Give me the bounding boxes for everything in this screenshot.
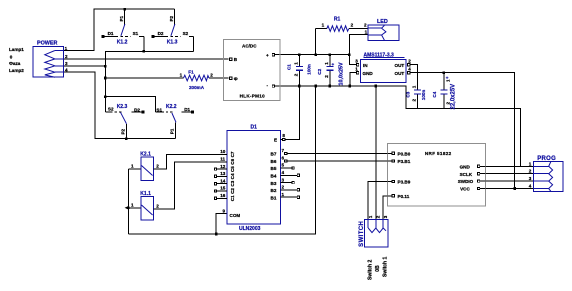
pin 15 C2 <box>217 190 227 192</box>
wire C2 leads <box>329 55 331 86</box>
wire GND minus rail <box>275 86 520 166</box>
wire LED pin1 down to +5V and AMS IN <box>349 35 368 65</box>
pin 8 E <box>281 138 286 140</box>
wire coil common vertical <box>127 169 129 234</box>
svg-text:P3.B9: P3.B9 <box>398 180 411 185</box>
svg-text:3: 3 <box>65 61 68 66</box>
wire C6 to K1.1 pin2 <box>153 162 227 209</box>
wire E pin net to rail <box>285 86 299 139</box>
svg-text:Switch 2: Switch 2 <box>368 259 374 280</box>
svg-text:+: + <box>332 62 335 67</box>
svg-text:C4: C4 <box>432 91 437 97</box>
pin 10 C7 <box>217 154 227 156</box>
svg-text:K2.1: K2.1 <box>140 152 151 158</box>
wire Faza rail with S-contact drops <box>105 51 193 111</box>
resistor R1 <box>322 17 354 32</box>
svg-text:B7: B7 <box>271 152 277 157</box>
svg-text:1: 1 <box>529 161 532 166</box>
wire K1.3 S2 drop <box>193 36 195 51</box>
IC D1 ULN2003 <box>214 124 299 232</box>
wire K1.3 pole <box>174 9 176 26</box>
svg-text:OUT: OUT <box>395 63 405 68</box>
svg-text:VCC: VCC <box>460 187 470 192</box>
pin 5 B5 <box>281 167 292 169</box>
svg-text:2: 2 <box>282 185 285 190</box>
svg-text:C4: C4 <box>230 173 235 179</box>
capacitor C3 <box>405 85 426 101</box>
svg-text:POWER: POWER <box>37 41 57 47</box>
svg-text:0В: 0В <box>375 265 381 272</box>
wire B7 to MCU P0.B0 <box>287 152 392 154</box>
wire B6 to MCU P3.B1 <box>287 160 392 162</box>
svg-text:ULN2003: ULN2003 <box>239 226 261 232</box>
wire long GND vertical and bottom rail <box>128 86 315 234</box>
svg-text:D2: D2 <box>158 31 164 36</box>
svg-text:P2: P2 <box>120 128 125 134</box>
relay contact K2.2 <box>155 104 194 134</box>
svg-text:D1: D1 <box>184 107 190 112</box>
svg-text:S2: S2 <box>183 31 189 36</box>
connector PROG <box>529 156 563 192</box>
wire MCU GND to PROG 1 <box>480 165 534 167</box>
svg-text:2: 2 <box>408 58 411 63</box>
svg-text:12: 12 <box>220 164 226 169</box>
svg-text:S1: S1 <box>156 107 162 112</box>
pin 1 B1 <box>281 196 297 198</box>
svg-text:+: + <box>446 76 449 81</box>
wire AMS GND to rail <box>350 73 356 86</box>
pin 6 B6 <box>285 160 287 162</box>
svg-text:S2: S2 <box>108 107 114 112</box>
wire POWER pin2 to AC/DC B <box>64 58 229 60</box>
wire K2.2 S1 branch <box>105 97 155 113</box>
svg-text:Switch 1: Switch 1 <box>383 256 389 277</box>
svg-text:C1: C1 <box>287 64 292 70</box>
svg-text:S1: S1 <box>133 31 139 36</box>
svg-text:2: 2 <box>156 204 159 209</box>
svg-text:Фaza: Фaza <box>9 61 21 66</box>
svg-text:K1.1: K1.1 <box>140 191 151 197</box>
svg-text:B6: B6 <box>271 159 277 164</box>
svg-text:2: 2 <box>351 22 354 27</box>
svg-text:100n: 100n <box>306 64 311 75</box>
wire SWITCH pin2 GND vertical <box>375 86 377 220</box>
connector LED <box>364 19 399 41</box>
svg-text:1: 1 <box>412 85 417 88</box>
svg-text:LED: LED <box>377 19 388 25</box>
connector SWITCH <box>359 215 388 247</box>
relay coil K2.1 <box>131 152 166 181</box>
svg-text:SWITCH: SWITCH <box>359 221 365 247</box>
svg-text:1: 1 <box>131 202 134 207</box>
svg-text:HLK-PM10: HLK-PM10 <box>240 93 266 98</box>
svg-text:14: 14 <box>220 178 226 183</box>
svg-text:6: 6 <box>282 155 285 160</box>
svg-text:COM: COM <box>230 213 241 218</box>
wire MCU P0.11 to SWITCH pin3 <box>383 196 392 220</box>
wire K2.1 pin1 <box>128 168 141 170</box>
pin 16 C1 <box>217 197 227 199</box>
svg-text:2: 2 <box>364 23 367 28</box>
svg-text:Ф: Ф <box>234 77 238 82</box>
svg-text:R1: R1 <box>334 17 341 23</box>
wire MCU P3.B9 to SWITCH pin1 <box>368 182 392 220</box>
svg-text:C3: C3 <box>230 180 235 186</box>
relay contact K1.2 <box>102 15 144 45</box>
wire F1 row Faza to AC/DC <box>105 77 228 79</box>
pin 11 C6 <box>217 161 227 163</box>
svg-text:1: 1 <box>368 215 373 218</box>
svg-text:11: 11 <box>220 157 225 162</box>
svg-text:2: 2 <box>446 102 451 105</box>
svg-text:2: 2 <box>324 75 329 78</box>
module U3 NRF 51822 <box>388 144 486 206</box>
wire top rail Lamp1 net <box>64 9 175 51</box>
wire C1 leads <box>298 55 300 86</box>
svg-text:1: 1 <box>322 22 325 27</box>
svg-text:3: 3 <box>282 177 285 182</box>
svg-text:C2: C2 <box>230 188 235 194</box>
relay contact K1.3 <box>152 15 194 45</box>
wire K1.2 pole <box>124 9 126 26</box>
svg-text:Lamp2: Lamp2 <box>9 68 24 73</box>
svg-text:C7: C7 <box>230 151 235 157</box>
svg-text:7: 7 <box>282 148 285 153</box>
svg-text:C2: C2 <box>317 68 322 74</box>
svg-text:1: 1 <box>365 29 368 34</box>
svg-text:C1: C1 <box>230 195 235 201</box>
svg-text:P3.B1: P3.B1 <box>398 159 411 164</box>
svg-text:10,0x25V: 10,0x25V <box>339 62 345 85</box>
wire AMS OUT2 to C3 <box>409 65 418 109</box>
svg-text:B3: B3 <box>271 181 277 186</box>
svg-text:8: 8 <box>282 133 285 138</box>
wire C4 leads <box>443 73 445 109</box>
svg-text:PROG: PROG <box>537 156 556 162</box>
svg-text:5: 5 <box>282 163 285 168</box>
svg-text:F1: F1 <box>188 70 194 75</box>
svg-text:+: + <box>266 53 269 58</box>
wire K2.2 pole <box>175 122 177 138</box>
svg-text:2: 2 <box>156 163 159 168</box>
svg-text:3: 3 <box>529 176 532 181</box>
svg-text:P0.11: P0.11 <box>398 194 410 199</box>
svg-text:16: 16 <box>220 193 226 198</box>
svg-text:4: 4 <box>529 184 532 189</box>
svg-text:4: 4 <box>282 170 285 175</box>
pin 13 C4 <box>217 175 227 177</box>
svg-text:GND: GND <box>363 71 374 76</box>
pin 7 B7 <box>285 152 287 154</box>
svg-text:4: 4 <box>408 66 411 71</box>
node arrow at K1.1 pin1 junction <box>125 206 129 210</box>
wire K1.1 pin1 <box>128 207 141 209</box>
svg-text:K2.2: K2.2 <box>166 104 177 110</box>
svg-text:K1.3: K1.3 <box>167 39 178 45</box>
svg-text:2: 2 <box>293 73 298 76</box>
pin 4 B4 <box>281 174 297 176</box>
svg-text:15: 15 <box>220 186 226 191</box>
svg-text:D1: D1 <box>108 31 114 36</box>
svg-text:22,0x25V: 22,0x25V <box>451 84 457 110</box>
svg-text:C5: C5 <box>230 166 235 172</box>
svg-text:9: 9 <box>223 208 226 213</box>
svg-text:10: 10 <box>220 149 226 154</box>
svg-text:2: 2 <box>210 73 213 78</box>
svg-text:1: 1 <box>65 46 68 51</box>
regulator U2 AMS1117-3.3 <box>355 53 411 83</box>
svg-text:1: 1 <box>282 192 285 197</box>
wire +5V rail <box>275 54 349 56</box>
svg-text:1: 1 <box>131 163 134 168</box>
pin 14 C3 <box>217 183 227 185</box>
relay coil K1.1 <box>131 191 175 220</box>
svg-text:4: 4 <box>65 67 68 72</box>
svg-text:200mA: 200mA <box>189 85 205 90</box>
wire C7 to K2.1 pin2 <box>153 155 227 169</box>
pin 3 B3 <box>281 182 292 184</box>
svg-text:2: 2 <box>412 99 417 102</box>
wire MCU SWDIO to PROG 3 <box>480 180 534 182</box>
svg-text:P2: P2 <box>169 15 174 21</box>
svg-text:3: 3 <box>383 215 388 218</box>
module U1 AC/DC HLK-PM10 <box>223 39 280 100</box>
svg-text:3: 3 <box>355 58 358 63</box>
svg-text:B2: B2 <box>271 188 277 193</box>
fuse F1 <box>180 70 214 91</box>
svg-text:K1.2: K1.2 <box>117 39 128 45</box>
connector POWER <box>33 41 68 78</box>
relay contact K2.3 <box>105 104 144 135</box>
svg-text:K2.3: K2.3 <box>117 104 128 110</box>
svg-text:2: 2 <box>375 215 380 218</box>
svg-text:GND: GND <box>460 164 471 169</box>
svg-text:E: E <box>274 138 277 143</box>
svg-text:B5: B5 <box>271 166 277 171</box>
svg-text:SCLK: SCLK <box>460 172 473 177</box>
svg-text:IN: IN <box>363 63 368 68</box>
wire POWER pin4 Lamp2 to contact pole rail <box>64 72 176 139</box>
capacitor C4 <box>432 76 457 110</box>
svg-text:P1: P1 <box>119 15 124 21</box>
svg-text:100n: 100n <box>421 90 426 101</box>
svg-text:1: 1 <box>180 73 183 78</box>
wire COM pin to bottom rail <box>216 214 227 235</box>
svg-text:P1: P1 <box>170 128 175 134</box>
wire POWER pin3 Faza <box>64 65 105 67</box>
pin 12 C5 <box>217 168 227 170</box>
svg-text:13: 13 <box>220 171 226 176</box>
svg-text:SWDIO: SWDIO <box>458 179 474 184</box>
svg-text:Lamp1: Lamp1 <box>9 47 24 52</box>
svg-text:NRF 51822: NRF 51822 <box>425 151 452 156</box>
wire +3.3V rail to PROG VCC <box>409 73 515 189</box>
wire R1 to LED pin2 <box>316 28 369 30</box>
svg-text:C3: C3 <box>405 91 410 97</box>
wire K2.3 pole <box>125 124 127 139</box>
wire R1 branch <box>315 29 317 55</box>
wire MCU VCC to PROG 4 <box>480 188 534 190</box>
capacitor C2 <box>317 62 344 86</box>
svg-text:1: 1 <box>324 62 329 65</box>
wire K1.2 S1 drop <box>143 36 145 51</box>
svg-text:P0.B0: P0.B0 <box>398 152 411 157</box>
capacitor C1 <box>287 62 312 77</box>
wire MCU SCLK to PROG 2 <box>480 173 534 175</box>
svg-text:C6: C6 <box>230 158 235 164</box>
svg-text:0: 0 <box>10 54 13 59</box>
svg-text:2: 2 <box>529 169 532 174</box>
svg-text:D1: D1 <box>251 124 258 130</box>
svg-text:B1: B1 <box>271 195 277 200</box>
svg-text:AC/DC: AC/DC <box>242 44 257 49</box>
svg-text:1: 1 <box>293 62 298 65</box>
pin 2 B2 <box>281 189 297 191</box>
svg-text:B4: B4 <box>271 174 277 179</box>
svg-text:OUT: OUT <box>395 71 405 76</box>
svg-text:1: 1 <box>355 66 358 71</box>
svg-text:D2: D2 <box>134 107 140 112</box>
svg-text:2: 2 <box>65 54 68 59</box>
